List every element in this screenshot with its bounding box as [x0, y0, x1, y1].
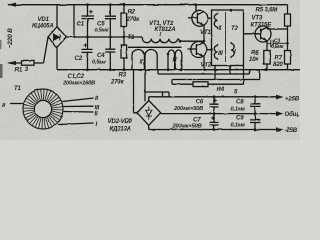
svg-text:КТ315Б: КТ315Б	[251, 22, 273, 29]
svg-text:200мк×50В: 200мк×50В	[172, 124, 202, 130]
svg-text:0,5мк: 0,5мк	[271, 44, 284, 50]
svg-text:-25В: -25В	[285, 127, 298, 134]
svg-text:С1,С2: С1,С2	[68, 73, 85, 80]
svg-text:III: III	[218, 50, 223, 57]
svg-text:VD2-VD5: VD2-VD5	[108, 118, 133, 125]
svg-text:R1: R1	[15, 67, 23, 74]
svg-text:200мк×160В: 200мк×160В	[62, 80, 95, 86]
svg-text:С7: С7	[193, 117, 201, 124]
svg-text:270к: 270к	[110, 78, 125, 85]
svg-text:R2: R2	[128, 9, 136, 16]
svg-text:Т1: Т1	[128, 34, 136, 41]
svg-text:III: III	[173, 57, 178, 64]
svg-text:Т2: Т2	[231, 25, 239, 32]
svg-text:II: II	[95, 111, 98, 118]
svg-text:II: II	[95, 95, 98, 102]
svg-text:С4: С4	[97, 52, 105, 59]
svg-text:II: II	[140, 59, 143, 66]
svg-text:10к: 10к	[249, 56, 259, 63]
svg-text:0,1мк: 0,1мк	[231, 123, 247, 129]
svg-text:Т1: Т1	[14, 85, 22, 92]
svg-text:820: 820	[273, 61, 283, 68]
svg-text:VT1: VT1	[200, 29, 211, 36]
svg-text:II: II	[2, 102, 5, 109]
svg-text:+25В: +25В	[285, 96, 300, 103]
svg-text:С1: С1	[77, 21, 85, 28]
svg-text:270к: 270к	[126, 16, 141, 23]
svg-text:VT2: VT2	[201, 62, 212, 69]
svg-text:С6: С6	[196, 99, 204, 106]
svg-text:0,5мк: 0,5мк	[92, 60, 107, 66]
svg-text:II: II	[219, 25, 222, 32]
svg-text:200мк×50В: 200мк×50В	[173, 106, 203, 112]
svg-text:R4: R4	[217, 86, 225, 93]
svg-text:С2: С2	[75, 55, 83, 62]
svg-text:КД213А: КД213А	[110, 126, 132, 133]
svg-text:0,1мк: 0,1мк	[231, 107, 247, 113]
svg-text:КТ812А: КТ812А	[155, 26, 176, 33]
svg-text:С9: С9	[236, 115, 244, 122]
svg-text:КЦ405А: КЦ405А	[32, 22, 54, 29]
svg-text:R5 3,6М: R5 3,6М	[256, 7, 279, 14]
svg-text:0,5мк: 0,5мк	[95, 27, 110, 33]
svg-text:Общ.: Общ.	[285, 111, 301, 118]
svg-text:С8: С8	[236, 99, 244, 106]
svg-text:~220 В: ~220 В	[7, 28, 14, 49]
svg-text:С5: С5	[97, 20, 105, 27]
svg-text:VT3: VT3	[252, 15, 263, 22]
